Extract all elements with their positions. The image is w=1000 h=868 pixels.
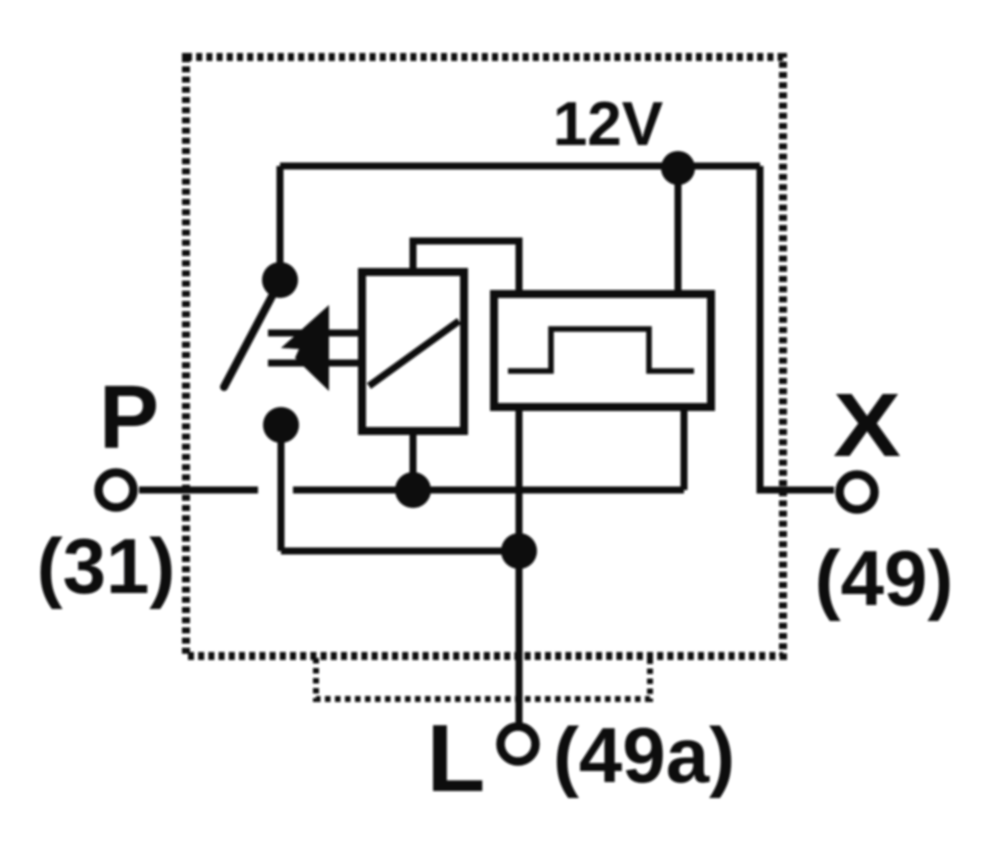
svg-text:P: P (99, 368, 159, 468)
node: switch top contact (262, 262, 298, 298)
wire: top bus from left corner to right corner (280, 163, 760, 170)
switch actuator link lines (268, 333, 362, 363)
wire: coil top loop over to timer top-left pin (413, 241, 519, 295)
enclosure bottom tab (dotted) (316, 658, 650, 699)
node: coil bottom on P bus (395, 472, 431, 508)
switch blade (diagonal contact) (224, 281, 280, 387)
node: switch lower contact (263, 407, 299, 443)
wire: right vertical down to X terminal (760, 166, 834, 490)
svg-text:X: X (833, 375, 901, 475)
timer U1 pulse waveform (508, 329, 694, 371)
relay coil K1 diagonal (369, 321, 459, 386)
wire: 12V node down to timer top (675, 168, 682, 295)
terminal X ring (840, 475, 875, 510)
wire: P terminal horizontal (left piece before crossing) (139, 487, 258, 494)
terminal P ring (99, 473, 134, 508)
svg-text:12V: 12V (553, 90, 663, 159)
wire: timer bottom-left pin down through L node to L terminal (516, 408, 523, 723)
svg-text:L: L (427, 705, 486, 812)
wire: coil bottom to P bus junction (410, 431, 417, 490)
svg-text:(49a): (49a) (553, 711, 735, 799)
svg-text:(31): (31) (37, 522, 176, 610)
node: 12V junction on top bus (661, 151, 695, 185)
wire: switch lower contact drop (278, 425, 285, 551)
enclosure dotted border (186, 57, 783, 656)
wire: riser from P bus to timer bottom right pin (681, 408, 688, 490)
node: L junction (501, 533, 537, 569)
wire: P horizontal continues to timer bottom-right drop (293, 487, 684, 494)
timer U1 box (494, 294, 711, 407)
switch actuator arrowhead (281, 305, 329, 391)
wire: left vertical from top bus to switch top contact (277, 166, 284, 280)
relay coil K1 box (362, 272, 464, 431)
wire: bottom horizontal to L node (281, 548, 519, 555)
svg-text:(49): (49) (815, 534, 954, 622)
terminal L ring (501, 727, 536, 762)
